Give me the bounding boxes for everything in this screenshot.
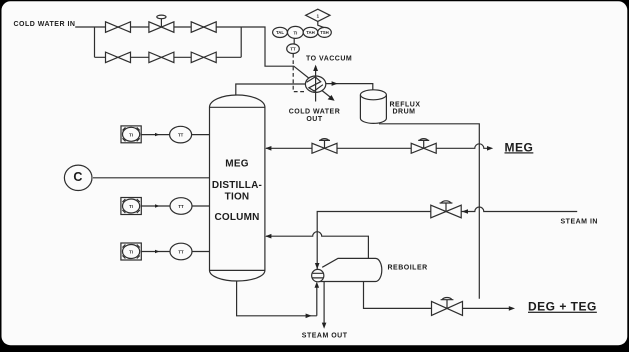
svg-text:STEAM IN: STEAM IN [561, 219, 598, 226]
svg-text:STEAM OUT: STEAM OUT [302, 332, 348, 339]
svg-text:DRUM: DRUM [393, 108, 416, 115]
svg-text:TI: TI [293, 30, 297, 35]
svg-text:COLUMN: COLUMN [214, 212, 259, 223]
svg-text:MEG: MEG [505, 140, 534, 154]
svg-text:OUT: OUT [306, 116, 323, 123]
svg-text:DEG + TEG: DEG + TEG [528, 300, 597, 314]
svg-text:TT: TT [178, 133, 184, 138]
svg-text:REBOILER: REBOILER [388, 265, 428, 272]
svg-text:TT: TT [178, 250, 184, 255]
svg-text:TAL: TAL [276, 30, 284, 35]
svg-text:TION: TION [225, 191, 250, 202]
svg-text:C: C [73, 170, 82, 184]
svg-text:TI: TI [129, 204, 133, 209]
svg-text:TI: TI [129, 132, 133, 137]
svg-text:COLD WATER IN: COLD WATER IN [14, 21, 76, 28]
svg-text:TT: TT [290, 46, 296, 51]
svg-text:TO VACCUM: TO VACCUM [306, 56, 352, 63]
svg-text:MEG: MEG [225, 159, 248, 170]
svg-text:TAH: TAH [306, 30, 315, 35]
svg-text:COLD WATER: COLD WATER [289, 109, 341, 116]
svg-text:TSH: TSH [320, 30, 329, 35]
svg-text:TI: TI [129, 250, 133, 255]
svg-text:DISTILLA-: DISTILLA- [212, 180, 262, 191]
svg-text:TT: TT [178, 204, 184, 209]
